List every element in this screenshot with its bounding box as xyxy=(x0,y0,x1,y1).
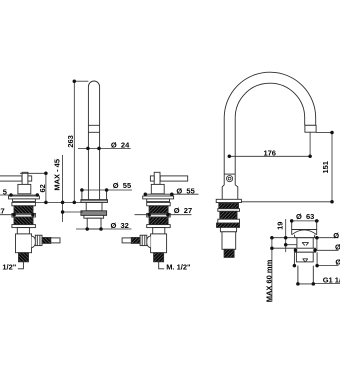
svg-text:Ø 27: Ø 27 xyxy=(174,206,192,215)
svg-text:MAX 60 mm: MAX 60 mm xyxy=(265,259,274,302)
svg-text:151: 151 xyxy=(321,161,330,174)
svg-text:5: 5 xyxy=(3,187,7,196)
svg-text:Ø 32: Ø 32 xyxy=(111,221,129,230)
svg-text:MAX - 45: MAX - 45 xyxy=(52,159,61,191)
svg-text:Ø 55: Ø 55 xyxy=(113,181,131,190)
svg-text:Ø 55: Ø 55 xyxy=(176,187,194,196)
svg-text:Ø 4: Ø 4 xyxy=(335,258,340,267)
svg-text:62: 62 xyxy=(38,184,47,192)
svg-text:1/2": 1/2" xyxy=(2,263,16,272)
svg-text:Ø 4: Ø 4 xyxy=(335,243,340,252)
svg-text:19: 19 xyxy=(275,222,284,230)
svg-text:Ø 24: Ø 24 xyxy=(111,140,130,149)
svg-text:Ø 4: Ø 4 xyxy=(333,231,340,240)
svg-text:G1 1/4: G1 1/4 xyxy=(323,276,340,285)
svg-text:176: 176 xyxy=(263,149,276,158)
svg-text:263: 263 xyxy=(66,135,75,148)
svg-text:M. 1/2": M. 1/2" xyxy=(166,263,191,272)
svg-text:Ø 63: Ø 63 xyxy=(296,212,314,221)
svg-text:Ø 27: Ø 27 xyxy=(0,207,5,216)
